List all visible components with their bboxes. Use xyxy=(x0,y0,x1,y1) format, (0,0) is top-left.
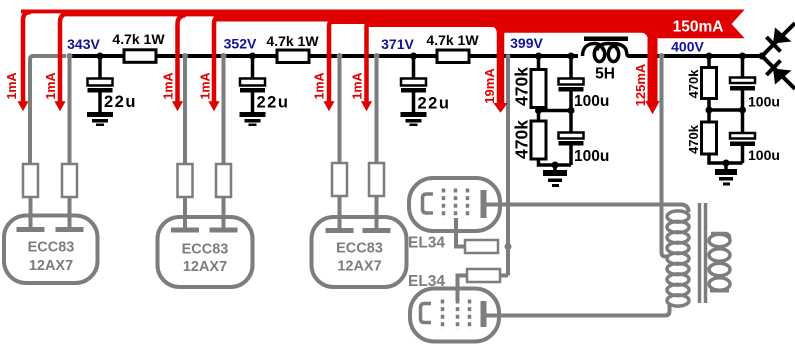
wire: lower EL34 resistor right lead xyxy=(500,274,508,278)
tube U1 ECC83 outline xyxy=(4,216,98,284)
capacitor 100u divider-1 lower xyxy=(559,111,584,166)
wire: current arrow 1mA #3 xyxy=(178,15,186,102)
svg-text:100u: 100u xyxy=(574,93,609,110)
svg-text:352V: 352V xyxy=(224,36,257,52)
resistor screen upper EL34 xyxy=(465,240,498,253)
node 343V junction dot xyxy=(97,53,104,60)
svg-text:470k: 470k xyxy=(512,120,532,159)
ground divider-2 xyxy=(715,169,737,186)
resistor 470k divider-1 lower xyxy=(531,121,571,170)
svg-text:19mA: 19mA xyxy=(482,68,497,104)
resistor 4.7k 1W first xyxy=(124,50,156,63)
node 399V junction dots xyxy=(535,53,542,60)
tube V2 EL34 outline xyxy=(410,289,499,342)
svg-text:1mA: 1mA xyxy=(199,72,213,99)
wire: EL34 screen feed from rail xyxy=(506,58,510,276)
wire: tube1 plate leads xyxy=(31,197,70,227)
resistor grid tube3-B xyxy=(369,163,384,196)
svg-text:12AX7: 12AX7 xyxy=(183,259,227,275)
wire: gray grid feed tube1 section A xyxy=(30,56,66,165)
svg-text:100u: 100u xyxy=(574,148,609,165)
wire: current arrow 1mA #1 xyxy=(23,12,31,102)
wire: current arrow 125mA xyxy=(648,30,658,102)
tube V2 anode xyxy=(481,301,487,327)
wire: main black B+ rail xyxy=(71,54,762,58)
svg-text:150mA: 150mA xyxy=(673,19,724,36)
wire: V1 anode to transformer xyxy=(484,205,689,213)
resistor screen lower EL34 xyxy=(467,269,500,282)
resistor 4.7k 1W third xyxy=(437,50,469,63)
svg-text:371V: 371V xyxy=(381,36,414,52)
svg-text:400V: 400V xyxy=(671,39,704,55)
svg-text:399V: 399V xyxy=(510,35,543,51)
wire: red B+ current bus (150mA) xyxy=(21,10,745,39)
capacitor 22u first xyxy=(88,58,113,112)
ground under 22u third xyxy=(401,112,427,126)
inductor 5H xyxy=(583,37,629,62)
wire: tube3 plate leads xyxy=(340,196,377,228)
wire: gray feed tube2 section B xyxy=(222,57,226,165)
tube V2 grids dashed xyxy=(443,300,470,331)
diode D1 upper rectifier xyxy=(762,23,795,56)
wire: current arrow 1mA #2 xyxy=(60,13,68,102)
tube V1 grids dashed xyxy=(444,189,468,220)
wire: gray grid feed tube1 section B xyxy=(68,56,72,165)
resistor grid tube2-A xyxy=(178,164,193,197)
tube V2 cathode xyxy=(421,304,432,323)
node 371V junction dot xyxy=(410,53,417,60)
resistor grid tube2-B xyxy=(216,164,231,197)
svg-text:12AX7: 12AX7 xyxy=(29,258,73,274)
wire: lower EL34 grid lead xyxy=(458,276,468,303)
resistor 470k divider-2 lower xyxy=(702,122,743,169)
resistor 470k divider-2 upper xyxy=(702,58,717,122)
ground under 22u first xyxy=(87,112,113,126)
svg-text:22u: 22u xyxy=(104,93,137,111)
wire: V2 anode to transformer bottom xyxy=(484,305,670,316)
wire: current arrow 19mA xyxy=(497,25,505,104)
tube V1 EL34 outline xyxy=(409,178,500,231)
wire: current arrow 1mA #5 xyxy=(329,18,337,102)
node 400V junction dots xyxy=(706,53,713,60)
svg-text:1mA: 1mA xyxy=(162,72,176,99)
diode D2 lower rectifier xyxy=(762,56,795,89)
svg-text:100u: 100u xyxy=(748,147,780,163)
tube V1 anode xyxy=(481,190,487,218)
capacitor 100u divider-1 upper xyxy=(539,58,584,111)
resistor grid tube3-A xyxy=(332,163,347,196)
tube U3 ECC83 outline xyxy=(312,217,407,287)
svg-text:5H: 5H xyxy=(595,66,615,83)
svg-text:12AX7: 12AX7 xyxy=(337,259,381,275)
tube U2 anode plates xyxy=(171,228,199,233)
capacitor 22u second xyxy=(240,58,265,112)
svg-text:ECC83: ECC83 xyxy=(336,241,383,257)
svg-text:ECC83: ECC83 xyxy=(182,242,229,258)
svg-text:4.7k 1W: 4.7k 1W xyxy=(426,32,479,48)
resistor grid tube1-A xyxy=(23,164,38,197)
wire: tube2 plate leads xyxy=(185,197,224,228)
svg-text:125mA: 125mA xyxy=(633,63,648,106)
svg-text:1mA: 1mA xyxy=(351,72,365,99)
resistor 4.7k 1W second xyxy=(277,50,309,63)
resistor 470k divider-1 upper xyxy=(531,58,546,121)
capacitor 22u third xyxy=(401,58,426,112)
wire: current arrow 1mA #4 xyxy=(214,15,222,102)
tube U3 anode plates xyxy=(326,228,354,233)
node screen junction xyxy=(505,243,512,250)
svg-text:1mA: 1mA xyxy=(5,72,19,99)
wire: gray node dots on rail xyxy=(67,53,665,59)
wire: current arrow 1mA #6 xyxy=(367,18,375,102)
svg-text:22u: 22u xyxy=(418,95,451,113)
svg-text:4.7k 1W: 4.7k 1W xyxy=(112,31,165,47)
wire: gray feed tube3 section A xyxy=(338,57,342,164)
svg-text:4.7k 1W: 4.7k 1W xyxy=(266,33,319,49)
svg-text:1mA: 1mA xyxy=(313,72,327,99)
svg-text:470k: 470k xyxy=(686,69,701,99)
svg-text:343V: 343V xyxy=(67,36,100,52)
svg-text:470k: 470k xyxy=(512,67,532,106)
wire: gray feed tube2 section A xyxy=(183,57,187,165)
svg-text:EL34: EL34 xyxy=(408,235,445,252)
svg-text:ECC83: ECC83 xyxy=(28,240,75,256)
wire: B+ to transformer center tap xyxy=(662,58,670,257)
transformer T1 core xyxy=(700,203,706,303)
tube U2 ECC83 outline xyxy=(158,217,253,287)
capacitor 100u divider-2 lower xyxy=(730,110,755,163)
transformer T1 secondary winding xyxy=(709,234,730,291)
ground under 22u second xyxy=(240,112,266,126)
resistor grid tube1-B xyxy=(62,164,77,197)
capacitor 100u divider-2 upper xyxy=(709,58,755,110)
svg-text:22u: 22u xyxy=(257,94,290,112)
wire: upper EL34 grid lead xyxy=(456,218,465,247)
tube U1 anode plates xyxy=(17,227,45,232)
wire: gray feed tube3 section B xyxy=(375,57,379,164)
svg-text:470k: 470k xyxy=(686,124,701,154)
ground divider-1 xyxy=(543,170,567,187)
node 352V junction dot xyxy=(249,53,256,60)
svg-text:1mA: 1mA xyxy=(44,72,58,99)
tube V1 cathode xyxy=(423,194,434,213)
svg-text:100u: 100u xyxy=(748,94,780,110)
transformer T1 primary winding xyxy=(667,211,689,306)
